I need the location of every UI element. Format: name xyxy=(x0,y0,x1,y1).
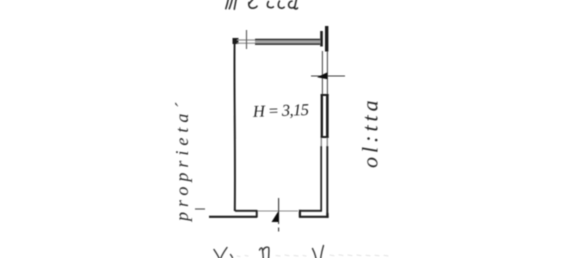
top label "stessa" (cut off by top edge) xyxy=(226,0,298,9)
right wall hatched sill segment xyxy=(320,138,322,146)
bottom wall right segment xyxy=(299,210,322,212)
top wall right end cap xyxy=(320,31,323,47)
right wall lower double line xyxy=(320,146,322,211)
faint lowercase tops of street name xyxy=(237,255,388,257)
door arrow flag xyxy=(272,211,279,222)
wall top-left corner blob xyxy=(233,38,239,44)
top wall (double line with grey core) xyxy=(255,40,320,44)
left leader dash xyxy=(195,208,205,210)
opening in top wall (light double line) xyxy=(237,39,256,41)
window centerline with arrow xyxy=(311,75,345,77)
door threshold line xyxy=(257,210,298,212)
right wall top black bar xyxy=(325,26,328,52)
right wall black framed segment xyxy=(321,94,323,138)
window jambs upper (right wall opening) xyxy=(321,51,323,94)
left boundary wall xyxy=(233,41,236,211)
word "Via" top strokes xyxy=(214,250,220,258)
svg-text:H = 3,15: H = 3,15 xyxy=(252,100,309,121)
bottom-right wall corner xyxy=(326,213,328,218)
svg-text:ol:tta: ol:tta xyxy=(358,96,383,168)
door centerline tick xyxy=(278,198,280,224)
word "Novarra" top strokes xyxy=(313,249,317,258)
bottom street label (cut off by bottom edge) xyxy=(214,246,324,258)
word "Mons" top strokes xyxy=(260,248,264,258)
bottom wall left segment xyxy=(235,210,257,212)
svg-text:proprieta´: proprieta´ xyxy=(172,98,192,223)
center tick of top opening xyxy=(246,30,248,49)
